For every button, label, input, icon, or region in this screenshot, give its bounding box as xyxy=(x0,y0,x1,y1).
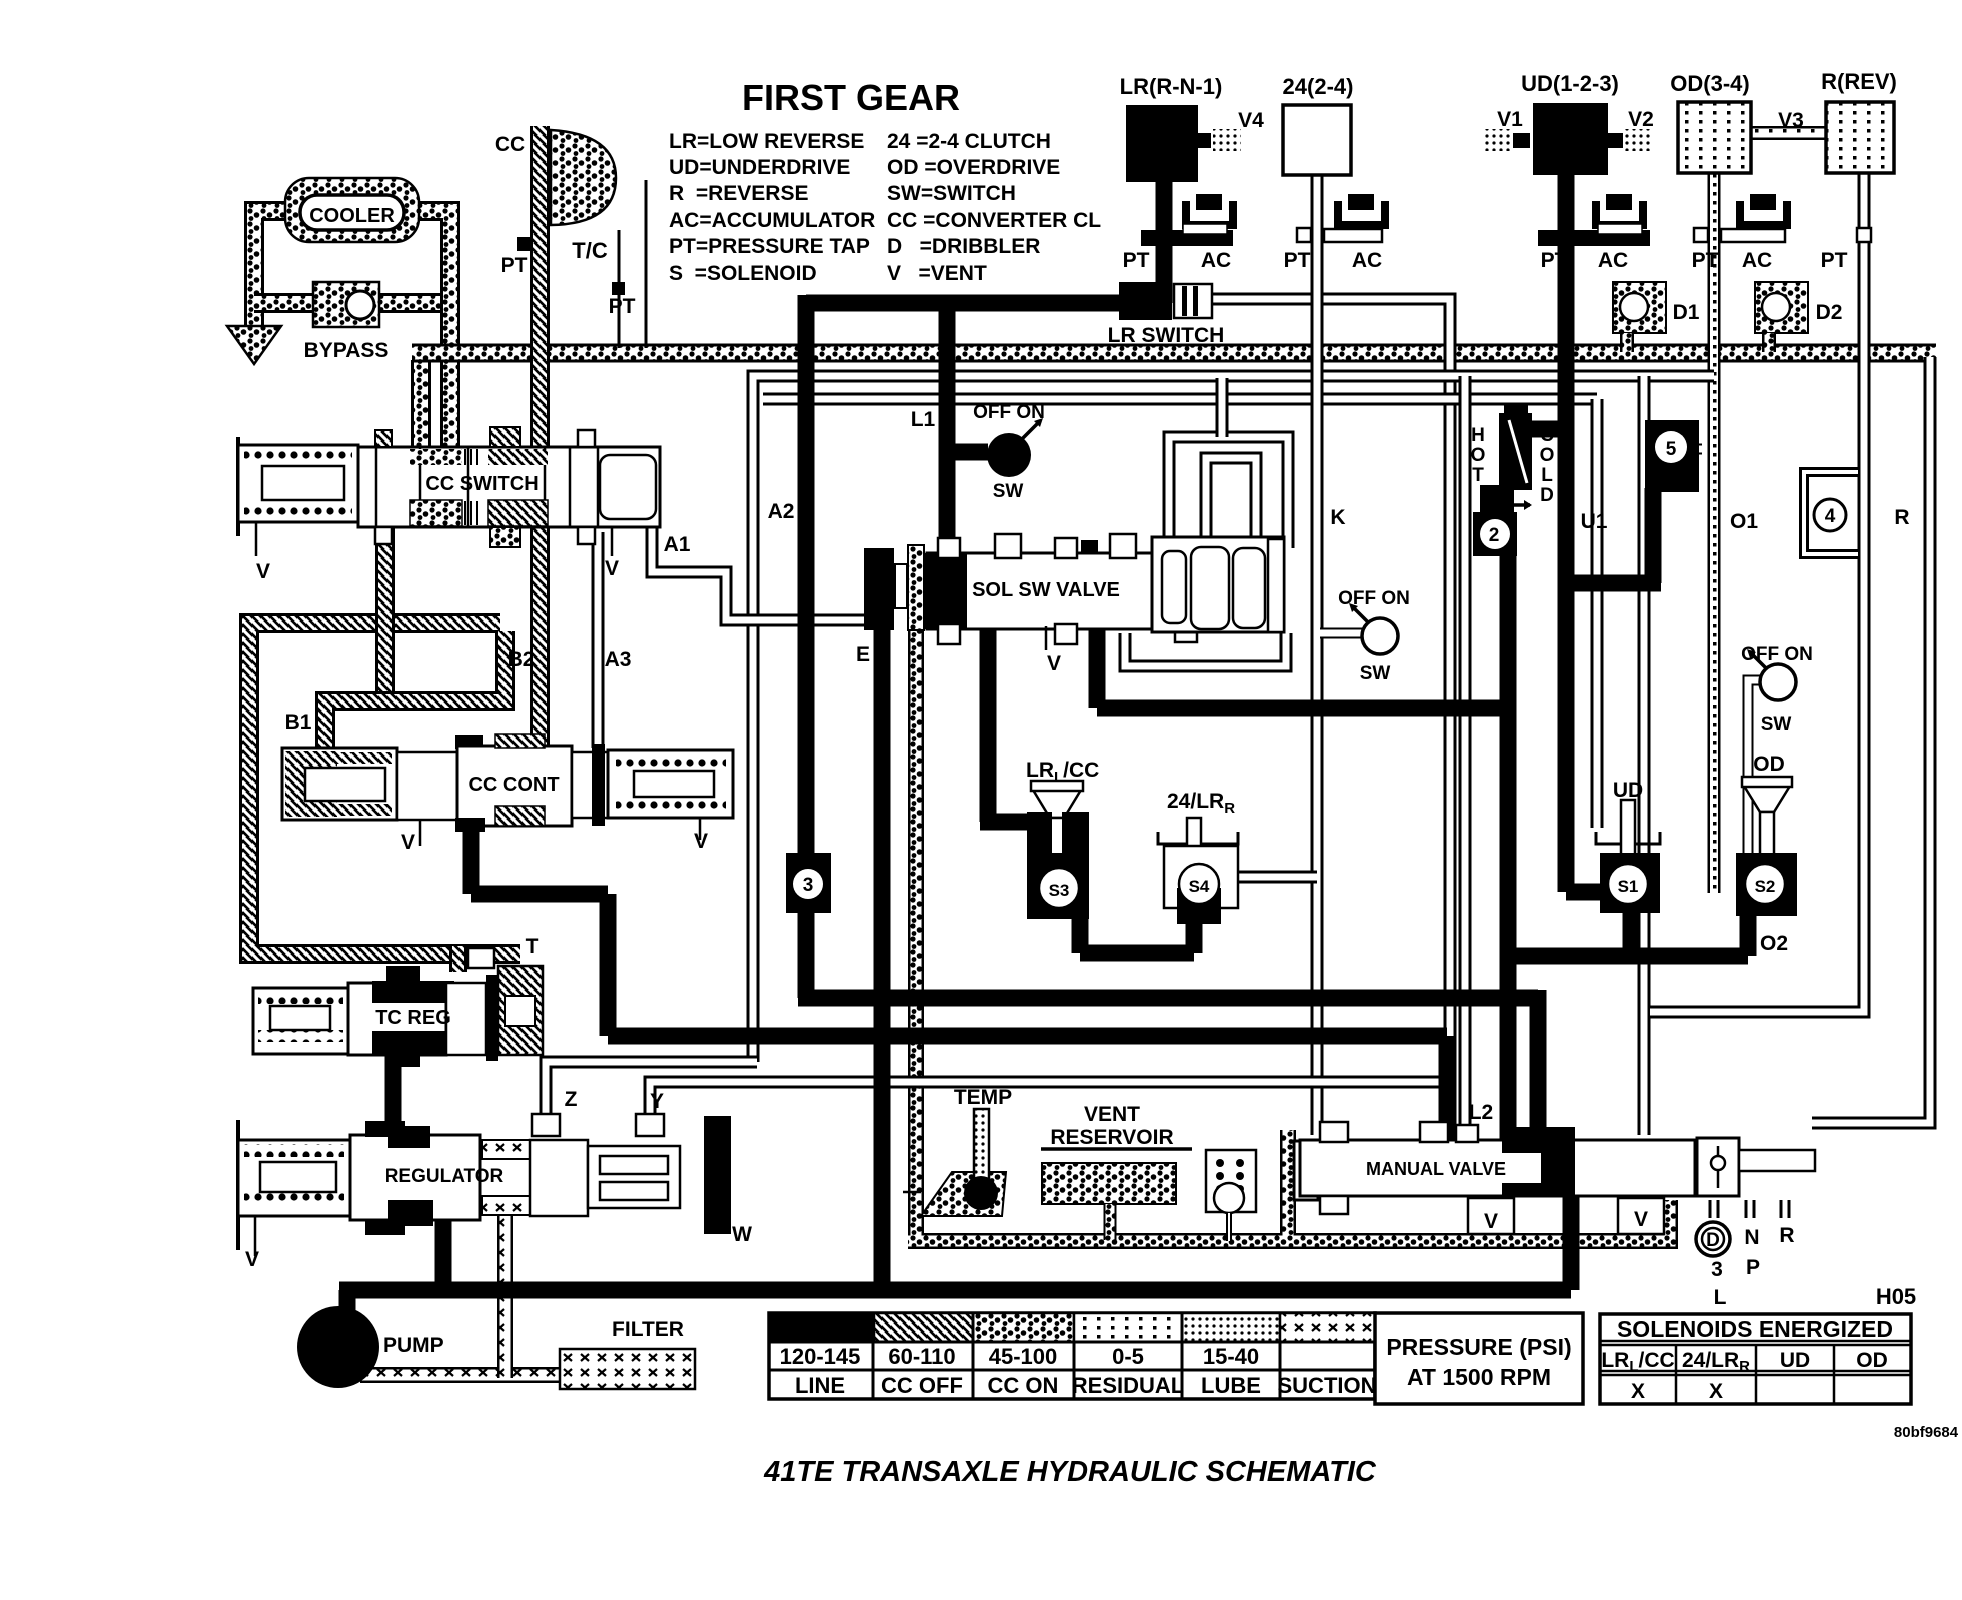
PT tap 2 xyxy=(612,282,625,295)
svg-text:O: O xyxy=(1471,445,1486,466)
svg-text:SW=SWITCH: SW=SWITCH xyxy=(887,182,1016,205)
svg-text:SOLENOIDS ENERGIZED: SOLENOIDS ENERGIZED xyxy=(1617,1316,1893,1342)
wire LR clutch stem xyxy=(1156,172,1173,303)
solenoid S1 stem xyxy=(1621,800,1635,855)
lube drain valve xyxy=(1206,1150,1256,1212)
svg-text:LRL/CC: LRL/CC xyxy=(1026,759,1099,786)
wire SW3 connector xyxy=(1748,680,1766,853)
svg-text:V: V xyxy=(256,560,270,583)
PT tick OD xyxy=(1694,228,1708,242)
wire sol sw valve to S3 xyxy=(980,628,1085,822)
svg-text:T: T xyxy=(1472,465,1484,486)
wire vertical to manual valve xyxy=(1459,376,1472,1132)
wire O1 to manual valve xyxy=(1638,376,1651,1135)
wire far right line to manual valve xyxy=(1812,357,1930,1123)
LR switch body xyxy=(1119,282,1172,320)
svg-text:PUMP: PUMP xyxy=(383,1334,444,1357)
cell grid xyxy=(769,1313,1375,1399)
accumulator AC LR xyxy=(1186,201,1233,229)
wire OD-R clutch connector xyxy=(1748,126,1830,140)
wire T/C shell line xyxy=(619,180,646,348)
cooler xyxy=(285,178,419,242)
swatch RESIDUAL xyxy=(1074,1313,1182,1342)
wire loop above sol sw valve outer xyxy=(1169,437,1288,548)
wire long top pipe A2 xyxy=(753,376,1714,1062)
svg-text:TEMP: TEMP xyxy=(954,1086,1012,1109)
solenoids energized table xyxy=(1600,1314,1911,1404)
svg-text:CC: CC xyxy=(495,133,525,156)
svg-text:OD: OD xyxy=(1856,1349,1888,1372)
svg-text:V4: V4 xyxy=(1238,109,1264,132)
svg-text:PT=PRESSURE TAP: PT=PRESSURE TAP xyxy=(669,235,870,258)
svg-text:R: R xyxy=(1779,1224,1794,1247)
swatch CC OFF xyxy=(874,1313,973,1342)
temp thermometer xyxy=(921,1172,1006,1216)
node 3 xyxy=(786,853,831,913)
svg-text:V: V xyxy=(245,1248,259,1271)
svg-text:U1: U1 xyxy=(1581,510,1608,533)
AC arm OD xyxy=(1721,229,1785,242)
svg-text:B1: B1 xyxy=(285,711,312,734)
svg-text:R =REVERSE: R =REVERSE xyxy=(669,182,808,205)
svg-text:41TE TRANSAXLE HYDRAULIC SCHEM: 41TE TRANSAXLE HYDRAULIC SCHEMATIC xyxy=(763,1456,1377,1488)
svg-text:COOLER: COOLER xyxy=(309,205,395,227)
wire regulator stub xyxy=(435,1210,452,1290)
svg-text:3: 3 xyxy=(1711,1258,1723,1281)
svg-text:TC REG: TC REG xyxy=(375,1007,451,1029)
svg-text:OD: OD xyxy=(1753,753,1785,776)
svg-text:D1: D1 xyxy=(1673,301,1700,324)
solenoid S2 xyxy=(1736,853,1797,916)
selector ticks xyxy=(1710,1200,1789,1218)
clutch LR(R-N-1) xyxy=(1126,105,1198,182)
svg-text:OD(3-4): OD(3-4) xyxy=(1670,71,1749,96)
svg-text:W: W xyxy=(732,1223,752,1246)
svg-text:UD=UNDERDRIVE: UD=UNDERDRIVE xyxy=(669,156,850,179)
wire S1-S2 link xyxy=(1501,910,1748,956)
wire cooler loop right xyxy=(412,211,450,460)
wire manual valve right output xyxy=(1740,1154,1815,1167)
svg-text:V: V xyxy=(1484,1210,1498,1233)
wire LR switch output to manual valve xyxy=(1205,299,1450,1132)
svg-text:SW: SW xyxy=(1761,714,1792,735)
svg-text:24 =2-4 CLUTCH: 24 =2-4 CLUTCH xyxy=(887,130,1051,153)
swatch CC ON xyxy=(973,1313,1074,1342)
svg-text:V3: V3 xyxy=(1778,109,1804,132)
valve CC SWITCH body xyxy=(358,447,660,527)
svg-text:PRESSURE (PSI): PRESSURE (PSI) xyxy=(1386,1334,1571,1360)
svg-text:BYPASS: BYPASS xyxy=(304,339,389,362)
svg-text:S2: S2 xyxy=(1755,877,1776,896)
svg-text:B2: B2 xyxy=(508,648,535,671)
svg-text:D =DRIBBLER: D =DRIBBLER xyxy=(887,235,1040,258)
wire branch to sol sw valve xyxy=(947,303,988,556)
node 4 bracket xyxy=(1804,472,1858,554)
svg-text:S3: S3 xyxy=(1049,881,1070,900)
wire main pump line xyxy=(339,1192,1571,1312)
wire TC REG to regulator xyxy=(385,1050,402,1135)
wire Y line xyxy=(650,1082,1442,1128)
svg-text:AC: AC xyxy=(1598,249,1628,272)
svg-text:A2: A2 xyxy=(768,500,795,523)
switch SW2 xyxy=(1362,618,1398,654)
wire second pipe to U1 xyxy=(763,393,1597,406)
wire sol sw valve right output xyxy=(1097,630,1510,708)
swatch SUCTION xyxy=(1280,1313,1375,1342)
svg-text:PT: PT xyxy=(501,254,528,277)
svg-text:CC ON: CC ON xyxy=(988,1373,1059,1398)
svg-text:SW: SW xyxy=(993,481,1024,502)
wire hot/cold connector xyxy=(1532,421,1566,438)
svg-text:45-100: 45-100 xyxy=(989,1344,1058,1369)
svg-text:K: K xyxy=(1330,506,1345,529)
wire sol sw valve right loop xyxy=(1125,633,1286,666)
svg-text:R: R xyxy=(1894,506,1909,529)
svg-text:0-5: 0-5 xyxy=(1112,1344,1144,1369)
wire S4 to 24 line xyxy=(1230,871,1317,884)
svg-text:5: 5 xyxy=(1666,439,1677,460)
solenoid S2 funnel xyxy=(1744,786,1790,812)
swatch LUBE xyxy=(1182,1313,1280,1342)
svg-text:AC: AC xyxy=(1742,249,1772,272)
bypass check valve xyxy=(313,282,379,327)
pressure box xyxy=(1375,1313,1583,1404)
svg-text:T: T xyxy=(526,935,539,958)
wire OD residual stem xyxy=(1708,170,1721,360)
svg-text:V2: V2 xyxy=(1628,108,1654,131)
svg-text:3: 3 xyxy=(803,875,814,896)
wire E-line stipple + vent reservoir enclosure xyxy=(908,560,1670,1241)
wire 5-box to O1 xyxy=(1648,444,1702,455)
svg-text:AT 1500 RPM: AT 1500 RPM xyxy=(1407,1364,1551,1390)
wire R clutch stem down xyxy=(1650,168,1864,1012)
svg-text:A3: A3 xyxy=(605,648,632,671)
svg-text:SW: SW xyxy=(1360,663,1391,684)
clutch 24(2-4) xyxy=(1283,105,1351,175)
swatch LINE xyxy=(769,1313,873,1342)
svg-text:LRL/CC: LRL/CC xyxy=(1601,1349,1674,1375)
wire cooler loop left (CC ON stipple) xyxy=(254,211,292,330)
svg-text:LR(R-N-1): LR(R-N-1) xyxy=(1120,74,1223,99)
svg-text:L: L xyxy=(1714,1286,1727,1309)
PT tick R xyxy=(1857,228,1871,242)
valve CC SWITCH spring box xyxy=(236,437,240,536)
svg-text:OFF ON: OFF ON xyxy=(1338,588,1410,609)
accumulator AC UD xyxy=(1596,201,1643,229)
svg-text:O: O xyxy=(1540,445,1555,466)
wire SW2 connector xyxy=(1320,628,1368,639)
svg-text:MANUAL VALVE: MANUAL VALVE xyxy=(1366,1159,1506,1179)
svg-text:OFF ON: OFF ON xyxy=(973,402,1045,423)
svg-text:AC=ACCUMULATOR: AC=ACCUMULATOR xyxy=(669,209,875,232)
wire LR switch to left vertical xyxy=(806,295,1172,998)
svg-text:D: D xyxy=(1706,1230,1720,1251)
solenoid S4 stem xyxy=(1187,818,1201,858)
svg-text:V: V xyxy=(401,831,415,854)
svg-text:LUBE: LUBE xyxy=(1201,1373,1261,1398)
wire CC CONT output to manual valve xyxy=(471,820,1447,1150)
svg-text:E: E xyxy=(856,643,870,666)
svg-text:RESERVOIR: RESERVOIR xyxy=(1050,1126,1173,1149)
wire sol-sw-valve left bar down xyxy=(874,620,891,1284)
svg-text:X: X xyxy=(1709,1380,1723,1403)
svg-text:UD: UD xyxy=(1613,779,1643,802)
poppet valve xyxy=(1697,1138,1739,1196)
svg-text:24(2-4): 24(2-4) xyxy=(1283,74,1354,99)
vent V1 xyxy=(1513,133,1530,148)
wire 5-box connector xyxy=(1573,488,1661,583)
svg-text:CC SWITCH: CC SWITCH xyxy=(425,473,538,495)
svg-text:V =VENT: V =VENT xyxy=(887,262,987,285)
switch SW3 xyxy=(1760,664,1796,700)
svg-text:OFF ON: OFF ON xyxy=(1741,644,1813,665)
svg-text:L1: L1 xyxy=(911,408,936,431)
svg-text:SOL SW VALVE: SOL SW VALVE xyxy=(972,579,1120,601)
wire 24 clutch stem (K) xyxy=(1311,173,1324,1135)
hot/cold thermal valve xyxy=(1504,404,1528,416)
svg-text:V: V xyxy=(1047,652,1061,675)
wire drop from P1 to valve loops xyxy=(1216,378,1229,437)
svg-text:H05: H05 xyxy=(1876,1284,1916,1309)
wire bypass branch xyxy=(254,293,450,313)
svg-text:L: L xyxy=(1541,465,1553,486)
node 5 xyxy=(1645,420,1699,492)
svg-text:UD(1-2-3): UD(1-2-3) xyxy=(1521,71,1619,96)
PT tap 1 xyxy=(517,237,531,251)
svg-text:80bf9684: 80bf9684 xyxy=(1894,1424,1959,1441)
svg-text:L2: L2 xyxy=(1469,1101,1494,1124)
svg-text:A1: A1 xyxy=(664,533,691,556)
wire B1 hatched branch xyxy=(325,631,505,752)
PT tick LR xyxy=(1141,230,1233,246)
svg-text:PT: PT xyxy=(1284,249,1311,272)
svg-text:AC: AC xyxy=(1201,249,1231,272)
svg-text:CC OFF: CC OFF xyxy=(881,1373,963,1398)
wire UD stem to S1 xyxy=(1566,170,1608,892)
svg-text:CC =CONVERTER CL: CC =CONVERTER CL xyxy=(887,209,1101,232)
pump xyxy=(297,1306,379,1388)
svg-text:2: 2 xyxy=(1489,525,1500,546)
svg-text:VENT: VENT xyxy=(1084,1103,1140,1126)
selector D circle xyxy=(1696,1222,1730,1256)
clutch OD(3-4) xyxy=(1678,102,1751,173)
wire main CC-ON line across page xyxy=(412,344,1936,363)
svg-text:FIRST GEAR: FIRST GEAR xyxy=(742,77,960,118)
clutch R(REV) xyxy=(1826,102,1894,173)
svg-text:D: D xyxy=(1540,485,1554,506)
svg-text:Z: Z xyxy=(565,1088,578,1111)
wire suction vertical regulator xyxy=(497,1215,513,1378)
svg-text:LINE: LINE xyxy=(795,1373,845,1398)
AC arm 24 xyxy=(1324,229,1382,242)
svg-text:H: H xyxy=(1471,425,1485,446)
svg-text:S =SOLENOID: S =SOLENOID xyxy=(669,262,817,285)
wire Z line xyxy=(546,1062,757,1128)
svg-text:S1: S1 xyxy=(1618,877,1639,896)
svg-text:O2: O2 xyxy=(1760,932,1788,955)
vent V4 xyxy=(1197,133,1211,148)
solenoid S3 xyxy=(1027,812,1052,860)
svg-text:60-110: 60-110 xyxy=(888,1344,955,1369)
wire 2-line vertical to manual valve xyxy=(1500,548,1517,1150)
wire T hatched stub to TC REG xyxy=(449,946,467,972)
filter xyxy=(560,1349,695,1389)
vent V2 xyxy=(1608,133,1623,148)
svg-text:CC CONT: CC CONT xyxy=(468,774,559,796)
accumulator AC 24 xyxy=(1338,201,1385,229)
torque converter bell xyxy=(551,130,616,225)
svg-text:V: V xyxy=(1634,1208,1648,1231)
wire suction line pump-filter xyxy=(360,1367,568,1383)
wire U1 xyxy=(1591,399,1604,828)
svg-text:C: C xyxy=(1540,425,1554,446)
svg-text:N: N xyxy=(1744,1226,1759,1249)
switch SW1 xyxy=(987,433,1031,477)
svg-text:FILTER: FILTER xyxy=(612,1318,684,1341)
bypass arrow xyxy=(227,326,281,364)
svg-text:PT: PT xyxy=(1123,249,1150,272)
wire A3 xyxy=(592,532,605,748)
wire B-line hatched vertical xyxy=(375,525,395,703)
solenoid S1 xyxy=(1600,853,1660,913)
clutch UD(1-2-3) xyxy=(1533,103,1608,175)
wire loop above sol sw valve inner xyxy=(1206,458,1256,548)
svg-text:LR SWITCH: LR SWITCH xyxy=(1108,324,1225,347)
wire OD solenoid supply (residual) xyxy=(1708,353,1721,893)
vent box V left xyxy=(1468,1198,1514,1234)
PT tick 24 xyxy=(1297,228,1311,242)
solenoid S4 xyxy=(1164,846,1238,908)
svg-text:PT: PT xyxy=(609,295,636,318)
svg-text:PT: PT xyxy=(1821,249,1848,272)
svg-text:UD: UD xyxy=(1780,1349,1810,1372)
svg-text:15-40: 15-40 xyxy=(1203,1344,1259,1369)
dribbler D2 xyxy=(1755,282,1808,333)
svg-text:V1: V1 xyxy=(1497,108,1523,131)
svg-text:Y: Y xyxy=(650,1090,664,1113)
PT tick UD xyxy=(1538,230,1650,246)
svg-text:V: V xyxy=(694,830,708,853)
node 2 xyxy=(1480,485,1514,515)
accumulator AC OD xyxy=(1740,201,1787,229)
svg-text:D2: D2 xyxy=(1816,301,1843,324)
svg-text:4: 4 xyxy=(1825,506,1836,527)
vent box V right xyxy=(1618,1198,1664,1234)
wire CC hatched vertical (CC OFF) xyxy=(530,126,550,750)
svg-text:RESIDUAL: RESIDUAL xyxy=(1072,1373,1184,1398)
wire A1 xyxy=(652,523,870,620)
wire S3-S4 link xyxy=(1080,908,1194,953)
svg-text:S4: S4 xyxy=(1189,877,1210,896)
wire 3-line long horizontal xyxy=(798,990,1538,1150)
svg-text:PT: PT xyxy=(1692,249,1719,272)
svg-text:PT: PT xyxy=(1541,249,1568,272)
solenoid S3 funnel xyxy=(1033,790,1081,818)
svg-text:OD =OVERDRIVE: OD =OVERDRIVE xyxy=(887,156,1060,179)
svg-text:T/C: T/C xyxy=(572,238,608,263)
svg-text:LR=LOW REVERSE: LR=LOW REVERSE xyxy=(669,130,864,153)
svg-text:120-145: 120-145 xyxy=(780,1344,861,1369)
svg-text:P: P xyxy=(1746,1256,1760,1279)
svg-text:REGULATOR: REGULATOR xyxy=(385,1166,504,1187)
wire left big hatched loop xyxy=(249,623,520,954)
svg-text:AC: AC xyxy=(1352,249,1382,272)
svg-text:X: X xyxy=(1631,1380,1645,1403)
dribbler D1 xyxy=(1613,282,1666,333)
svg-text:O1: O1 xyxy=(1730,510,1758,533)
svg-text:V: V xyxy=(605,557,619,580)
svg-text:SUCTION: SUCTION xyxy=(1278,1373,1377,1398)
svg-text:R(REV): R(REV) xyxy=(1821,69,1897,94)
